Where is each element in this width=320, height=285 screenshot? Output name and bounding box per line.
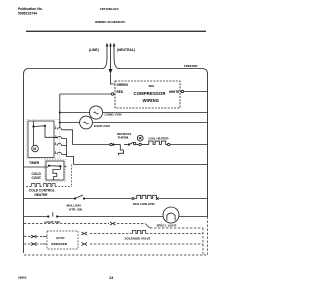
svg-text:RED: RED xyxy=(117,90,124,94)
svg-text:(LINE): (LINE) xyxy=(89,48,99,52)
svg-text:FREEZER: FREEZER xyxy=(184,64,198,68)
svg-text:SPEC’L LIGHT: SPEC’L LIGHT xyxy=(157,224,177,228)
svg-text:GREEN: GREEN xyxy=(117,83,129,87)
svg-text:WIRING: WIRING xyxy=(143,98,160,103)
svg-text:(NEUTRAL): (NEUTRAL) xyxy=(117,48,135,52)
svg-text:HTR. SW.: HTR. SW. xyxy=(69,208,83,212)
svg-text:13: 13 xyxy=(109,276,113,280)
svg-text:1: 1 xyxy=(55,135,57,139)
svg-text:SOLENOID VALVE: SOLENOID VALVE xyxy=(125,237,151,241)
svg-text:EVAP. FAN: EVAP. FAN xyxy=(94,124,110,128)
svg-text:5995216744: 5995216744 xyxy=(18,11,37,15)
svg-text:COND. FAN: COND. FAN xyxy=(105,112,123,116)
svg-text:SEE: SEE xyxy=(149,84,155,88)
svg-text:COIL HEATER: COIL HEATER xyxy=(149,137,170,141)
svg-text:HEATER: HEATER xyxy=(35,193,49,197)
svg-text:TIMER: TIMER xyxy=(29,161,40,165)
svg-text:AUTO: AUTO xyxy=(56,236,65,240)
svg-text:THERM.: THERM. xyxy=(118,136,130,140)
svg-text:M: M xyxy=(33,147,36,151)
svg-text:MULLION HTR.: MULLION HTR. xyxy=(133,202,155,206)
svg-text:3: 3 xyxy=(55,151,57,155)
svg-text:WHITE: WHITE xyxy=(169,90,179,94)
svg-text:2: 2 xyxy=(55,126,57,130)
svg-text:WIRING SCHEMATIC: WIRING SCHEMATIC xyxy=(95,20,126,24)
svg-text:59952: 59952 xyxy=(18,276,27,280)
svg-text:ICEMAKER: ICEMAKER xyxy=(51,242,68,246)
svg-text:FRT18NLHC0: FRT18NLHC0 xyxy=(100,7,119,11)
svg-text:4: 4 xyxy=(55,142,57,146)
svg-text:COMPRESSOR: COMPRESSOR xyxy=(134,91,167,96)
svg-text:CONT.: CONT. xyxy=(32,176,42,180)
